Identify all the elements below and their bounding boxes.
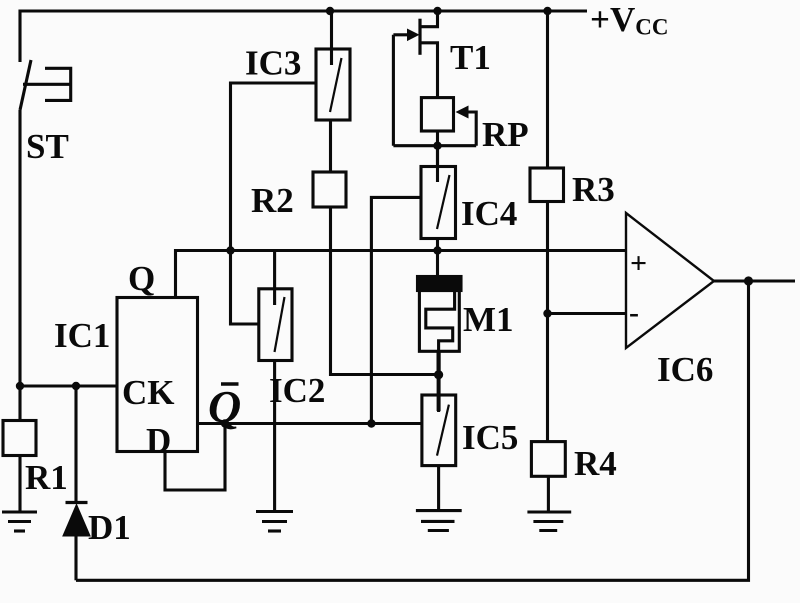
wire to D1: [74, 386, 77, 502]
node Q control: [226, 246, 234, 254]
svg-text:+VCC: +VCC: [590, 0, 668, 40]
ground under R1: [2, 512, 37, 531]
op-amp IC6: [626, 213, 714, 348]
svg-text:ST: ST: [26, 127, 69, 166]
transistor T1: [393, 11, 437, 146]
wire D loop: [165, 424, 225, 491]
wire ST to R1: [18, 110, 21, 420]
node output: [744, 276, 753, 285]
node rail-R3: [543, 7, 551, 15]
node RP bottom: [433, 142, 441, 150]
resistor R4: [531, 442, 565, 477]
analog switch IC3: [316, 11, 350, 120]
node rail-IC3: [326, 7, 334, 15]
node Qbar-IC4: [367, 419, 375, 427]
ground under IC5: [416, 511, 462, 531]
wire top VCC rail: [20, 11, 587, 62]
ground under IC2: [256, 512, 293, 532]
svg-text:R3: R3: [572, 170, 615, 209]
svg-text:IC2: IC2: [269, 371, 325, 410]
node rail-T1: [433, 7, 441, 15]
wire plus row: [231, 249, 627, 252]
svg-text:R1: R1: [25, 458, 68, 497]
svg-text:-: -: [629, 296, 639, 329]
svg-text:IC4: IC4: [461, 194, 517, 233]
resistor R1: [3, 421, 36, 456]
flip-flop IC1: [117, 298, 198, 452]
microphone M1: [418, 277, 462, 375]
wire RP bottom node: [393, 144, 476, 147]
svg-text:Q: Q: [128, 259, 155, 298]
wire Q pin: [176, 251, 231, 298]
wire IC2 control: [231, 251, 259, 325]
wire M1 to IC5: [437, 375, 441, 411]
wire minus row: [548, 312, 627, 315]
svg-text:IC3: IC3: [245, 44, 301, 83]
wire IC4 control: [371, 197, 421, 423]
wire RP to IC4: [436, 131, 439, 167]
wire IC2 to ground: [273, 361, 276, 512]
analog switch IC2: [259, 251, 292, 361]
svg-text:IC6: IC6: [657, 350, 713, 389]
svg-text:IC1: IC1: [54, 316, 110, 355]
node D1 top: [72, 382, 80, 390]
node ST-CK: [16, 382, 24, 390]
node minus input: [543, 309, 551, 317]
ground under R4: [527, 512, 571, 531]
wire M1 node left: [437, 351, 441, 374]
wire D1 to bottom rail: [74, 535, 77, 580]
resistor R2: [313, 172, 346, 207]
svg-text:D: D: [146, 421, 171, 460]
svg-text:+: +: [630, 247, 647, 280]
svg-text:R4: R4: [574, 444, 617, 483]
node M1-IC5: [434, 370, 443, 379]
svg-text:M1: M1: [463, 300, 514, 339]
svg-text:T1: T1: [450, 38, 491, 77]
svg-text:R2: R2: [251, 181, 294, 220]
potentiometer RP: [421, 98, 476, 146]
wire R2 down to M1 node: [331, 207, 439, 375]
svg-text:D1: D1: [88, 508, 131, 547]
wire IC3 to R2: [329, 120, 332, 172]
wire bottom rail: [76, 281, 749, 580]
resistor R3: [530, 11, 564, 442]
wire IC5 to ground: [437, 466, 440, 511]
wire R1 to ground: [18, 456, 21, 512]
wire IC4 to plus row: [436, 239, 439, 251]
switch ST: [20, 60, 71, 110]
wire IC3 control: [231, 83, 317, 251]
wire plus row to M1: [436, 251, 439, 277]
label Qbar: [208, 381, 241, 432]
wire R4 to ground: [547, 476, 550, 511]
node Qbar-D: [221, 419, 229, 427]
svg-text:Q: Q: [208, 381, 241, 432]
diode D1: [65, 503, 89, 536]
wire Qbar row: [198, 422, 422, 425]
wire CK row: [20, 384, 117, 387]
svg-text:RP: RP: [482, 115, 529, 154]
node plus input: [433, 246, 441, 254]
wire op-amp output: [714, 279, 795, 282]
analog switch IC4: [421, 146, 456, 239]
svg-text:CK: CK: [122, 373, 175, 412]
analog switch IC5: [422, 395, 456, 466]
svg-text:IC5: IC5: [462, 418, 518, 457]
